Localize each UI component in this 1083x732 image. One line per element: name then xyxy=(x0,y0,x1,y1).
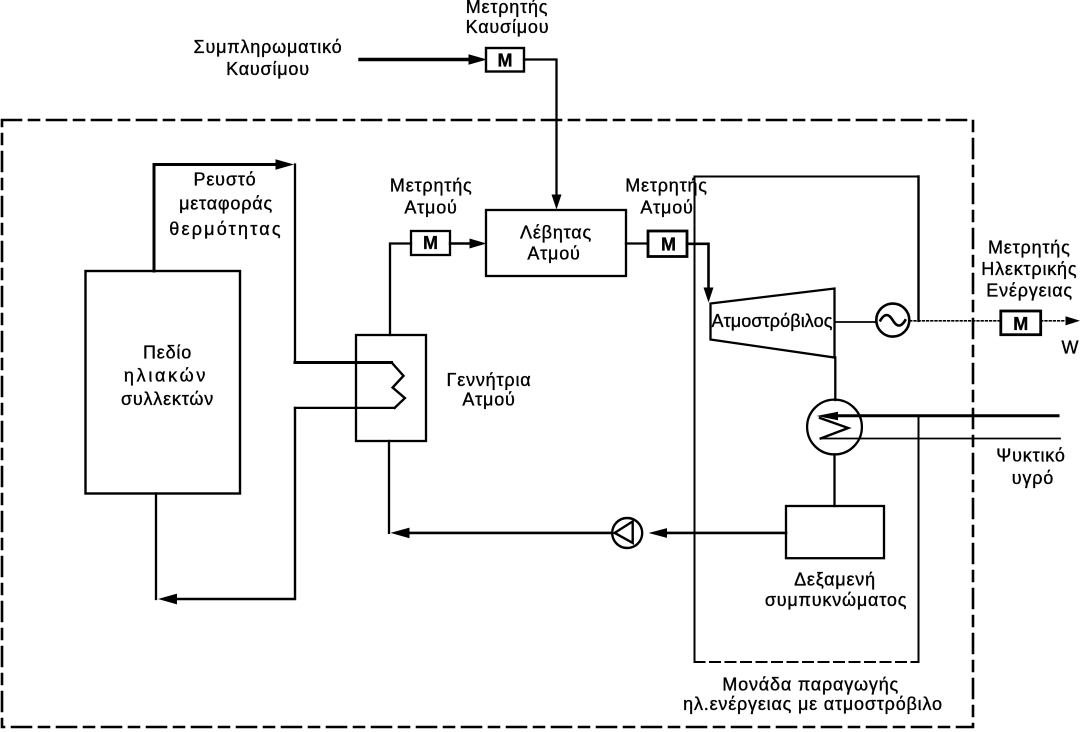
wire steam meter to boiler xyxy=(450,242,471,244)
svg-text:Ατμού: Ατμού xyxy=(640,198,693,218)
label cooling liquid xyxy=(996,445,1065,488)
svg-text:Ατμού: Ατμού xyxy=(404,197,457,217)
svg-text:ηλιακών: ηλιακών xyxy=(124,366,208,386)
wire turbine to generator xyxy=(835,321,877,323)
meter M electric box xyxy=(1001,311,1041,335)
cooling outlet line lower xyxy=(821,438,1060,440)
svg-text:Καυσίμου: Καυσίμου xyxy=(226,59,310,79)
label fuel meter xyxy=(466,0,550,37)
svg-text:M: M xyxy=(423,233,438,253)
svg-text:Μονάδα παραγωγής: Μονάδα παραγωγής xyxy=(722,674,899,694)
label power production unit xyxy=(683,674,943,714)
wire steam meter to turbine xyxy=(687,244,709,288)
label steam meter right xyxy=(625,176,708,218)
svg-text:μεταφοράς: μεταφοράς xyxy=(179,194,273,214)
svg-text:Ρευστό: Ρευστό xyxy=(194,170,257,190)
svg-text:Ατμού: Ατμού xyxy=(527,244,580,264)
wire fuel line into boiler arrowhead xyxy=(552,195,562,210)
wire hot fluid down to steam generator xyxy=(294,165,296,363)
svg-text:M: M xyxy=(1013,314,1028,334)
label W output xyxy=(1062,338,1079,358)
wire steam generator down connector xyxy=(388,441,390,533)
svg-text:υγρό: υγρό xyxy=(1012,468,1054,488)
meter M fuel box xyxy=(486,48,524,72)
svg-text:συλλεκτών: συλλεκτών xyxy=(121,389,214,409)
wire steam riser from generator to meter xyxy=(390,244,411,336)
pump xyxy=(612,518,642,548)
svg-text:Μετρητής: Μετρητής xyxy=(466,0,549,17)
outer dashed system boundary xyxy=(2,120,973,727)
svg-text:Ενέργειας: Ενέργειας xyxy=(986,280,1073,300)
inner unit box right upper xyxy=(917,177,919,321)
svg-text:συμπυκνώματος: συμπυκνώματος xyxy=(765,590,907,610)
svg-text:Μετρητής: Μετρητής xyxy=(390,176,473,196)
wire cold fluid return to solar field xyxy=(295,407,395,409)
meter M steam right box xyxy=(648,231,687,257)
svg-text:Γεννήτρια: Γεννήτρια xyxy=(447,370,532,390)
svg-text:W: W xyxy=(1062,338,1079,358)
wire boiler to right steam meter xyxy=(626,242,648,244)
svg-text:Λέβητας: Λέβητας xyxy=(520,222,592,242)
box condensate tank xyxy=(786,506,884,558)
label electric energy meter xyxy=(981,238,1077,301)
condenser circle xyxy=(807,400,862,455)
generator circle xyxy=(876,304,909,337)
wire fuel supply xyxy=(360,58,470,61)
label supplementary fuel xyxy=(194,37,343,79)
wire condenser to condensate tank xyxy=(833,454,835,506)
wire tank to pump xyxy=(668,532,786,535)
heating coil zigzag xyxy=(392,363,405,408)
cooling inlet line upper xyxy=(836,414,1058,417)
meter M steam left box xyxy=(411,231,450,255)
svg-text:Καυσίμου: Καυσίμου xyxy=(466,17,550,37)
svg-text:M: M xyxy=(661,235,676,255)
inner unit box right lower xyxy=(918,416,920,662)
wire turbine exhaust to condenser xyxy=(834,358,836,401)
svg-text:Πεδίο: Πεδίο xyxy=(143,342,192,362)
wire fuel meter to boiler xyxy=(524,60,557,197)
box steam boiler xyxy=(486,210,626,276)
wire generator output dotted xyxy=(910,320,1000,322)
svg-text:Ψυκτικό: Ψυκτικό xyxy=(996,445,1065,465)
svg-text:ηλ.ενέργειας με ατμοστρόβιλο: ηλ.ενέργειας με ατμοστρόβιλο xyxy=(683,694,943,714)
svg-text:M: M xyxy=(498,51,513,71)
svg-text:Συμπληρωματικό: Συμπληρωματικό xyxy=(194,37,343,57)
wire pump to steam generator return xyxy=(410,532,612,535)
svg-text:Δεξαμενή: Δεξαμενή xyxy=(794,570,876,590)
label steam meter left xyxy=(390,176,473,218)
svg-text:Ατμοστρόβιλος: Ατμοστρόβιλος xyxy=(711,311,832,331)
steam generator heat exchanger box xyxy=(356,335,426,441)
svg-text:Ηλεκτρικής: Ηλεκτρικής xyxy=(981,259,1077,279)
inner unit box top xyxy=(695,176,919,178)
inner unit box left xyxy=(694,177,696,663)
wire hot fluid from solar field xyxy=(154,165,276,272)
svg-text:θερμότητας: θερμότητας xyxy=(169,219,282,239)
turbine xyxy=(711,289,835,358)
label heat transfer fluid xyxy=(169,170,282,239)
svg-text:Μετρητής: Μετρητής xyxy=(988,238,1071,258)
box solar collector field xyxy=(86,271,241,494)
condenser coil xyxy=(820,418,848,439)
label steam generator xyxy=(447,370,532,410)
svg-text:Ατμού: Ατμού xyxy=(462,390,515,410)
wire solar field bottom connector xyxy=(155,494,157,600)
inner unit box bottom dashed xyxy=(695,661,919,663)
